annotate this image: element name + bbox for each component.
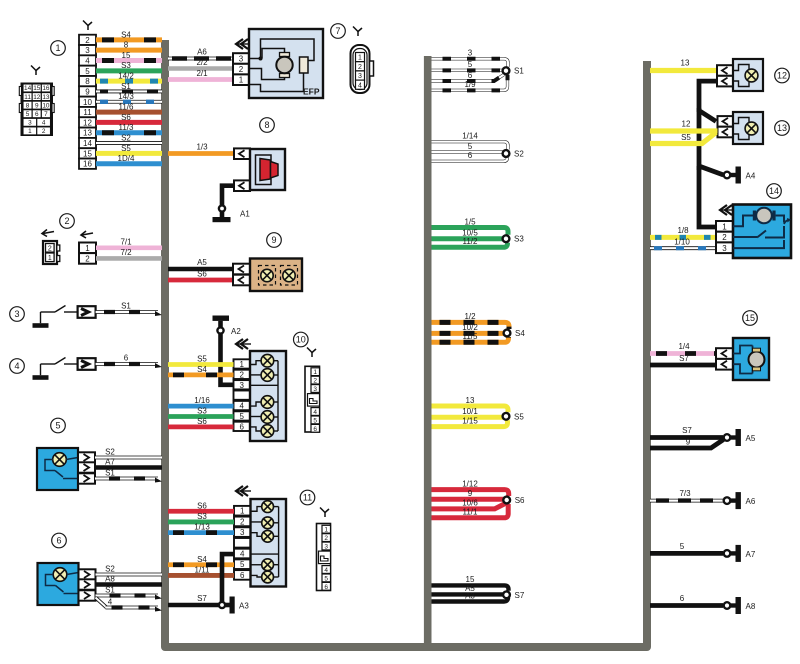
svg-text:14: 14 bbox=[83, 139, 92, 148]
svg-text:3: 3 bbox=[358, 73, 362, 80]
svg-text:A2: A2 bbox=[231, 327, 241, 336]
wire 1/5 (net S3) bbox=[432, 217, 509, 234]
svg-text:1/16: 1/16 bbox=[194, 396, 210, 405]
svg-text:11/6: 11/6 bbox=[119, 103, 135, 112]
wire 6 from switch 4 bbox=[96, 354, 162, 368]
wire A5 bbox=[168, 258, 233, 269]
wire 7/3 to ground A6 bbox=[650, 489, 723, 501]
wire 5 (net S2) bbox=[432, 142, 504, 152]
svg-text:2: 2 bbox=[722, 233, 727, 242]
svg-text:A6: A6 bbox=[746, 497, 756, 506]
wire S7 to ground A5 bbox=[650, 426, 723, 438]
svg-text:S7: S7 bbox=[679, 354, 689, 363]
label 2 for connector X2 bbox=[60, 214, 75, 229]
svg-text:1/8: 1/8 bbox=[677, 226, 689, 235]
wire S1 (unit 5) bbox=[95, 469, 162, 483]
svg-text:S1: S1 bbox=[514, 67, 524, 76]
motor unit 15 bbox=[716, 338, 769, 380]
wire 1/8 bbox=[650, 226, 716, 237]
wire 7/2 bbox=[96, 248, 162, 258]
wire S5 (X1 pin 15) bbox=[96, 144, 162, 154]
node A5 bbox=[724, 434, 731, 441]
svg-text:S2: S2 bbox=[514, 150, 524, 159]
svg-text:1: 1 bbox=[358, 55, 362, 62]
svg-text:1: 1 bbox=[28, 128, 32, 135]
svg-text:S1: S1 bbox=[105, 469, 115, 478]
svg-text:6: 6 bbox=[313, 426, 317, 433]
svg-text:8: 8 bbox=[124, 41, 129, 50]
label 5 for lamp unit bbox=[51, 418, 66, 433]
wire 10/5 (net S3) bbox=[432, 229, 504, 239]
wire 1/13 (cluster 11 pin 3) bbox=[168, 523, 234, 533]
wire A8 (unit 6) bbox=[96, 575, 163, 585]
wire fork to ground A4 bbox=[699, 166, 724, 227]
svg-text:10: 10 bbox=[296, 335, 306, 345]
svg-text:A3: A3 bbox=[465, 591, 475, 600]
wire 12 to lamp 13 bbox=[650, 120, 718, 132]
ground A4 bbox=[731, 167, 756, 184]
svg-text:S7: S7 bbox=[515, 591, 525, 600]
svg-text:2: 2 bbox=[240, 370, 245, 379]
wire 6 (net S1) bbox=[432, 71, 505, 81]
svg-text:S6: S6 bbox=[515, 496, 525, 505]
svg-text:9: 9 bbox=[35, 102, 39, 109]
svg-text:S1: S1 bbox=[121, 82, 131, 91]
wire S3 (cluster 10 pin 5) bbox=[168, 407, 234, 417]
svg-text:1: 1 bbox=[240, 507, 245, 516]
svg-text:7: 7 bbox=[335, 26, 340, 36]
svg-text:A8: A8 bbox=[105, 575, 115, 584]
wire from node A3 to cluster 11 pin 4 bbox=[222, 554, 234, 602]
svg-text:1/14: 1/14 bbox=[462, 132, 478, 141]
label 10 for lamp cluster bbox=[294, 332, 309, 347]
node A6 bbox=[724, 497, 731, 504]
svg-text:2: 2 bbox=[324, 535, 328, 542]
svg-text:S4: S4 bbox=[515, 329, 525, 338]
svg-text:1/13: 1/13 bbox=[194, 523, 210, 532]
svg-text:S3: S3 bbox=[121, 61, 131, 70]
wire 13 to lamp 12 bbox=[650, 59, 717, 71]
wire 1/12 (net S6) bbox=[432, 479, 509, 496]
label 7 for connector bbox=[331, 24, 346, 39]
wire 1D/4 (X1 pin 16) bbox=[96, 154, 162, 164]
label 11 for lamp cluster bbox=[300, 490, 315, 505]
svg-text:10: 10 bbox=[42, 102, 50, 109]
node S2 bbox=[503, 150, 510, 157]
svg-text:9: 9 bbox=[85, 87, 90, 96]
svg-text:11/5: 11/5 bbox=[463, 332, 479, 341]
svg-text:A1: A1 bbox=[240, 210, 250, 219]
motor unit 14 bbox=[716, 205, 791, 259]
svg-text:15: 15 bbox=[33, 85, 41, 92]
svg-text:S3: S3 bbox=[514, 235, 524, 244]
svg-text:6: 6 bbox=[240, 422, 245, 431]
svg-text:4: 4 bbox=[313, 409, 317, 416]
svg-text:8: 8 bbox=[26, 102, 30, 109]
svg-text:3: 3 bbox=[313, 386, 317, 393]
svg-text:S6: S6 bbox=[197, 270, 207, 279]
svg-text:2: 2 bbox=[313, 378, 317, 385]
svg-text:12: 12 bbox=[83, 118, 92, 127]
wire 13 (net S5) bbox=[432, 396, 509, 413]
svg-text:16: 16 bbox=[83, 160, 92, 169]
wire S2 (unit 5) bbox=[95, 448, 162, 458]
wire S3 (X1 pin 5) bbox=[96, 61, 162, 71]
svg-text:3: 3 bbox=[722, 244, 727, 253]
svg-text:1: 1 bbox=[313, 369, 317, 376]
svg-text:1: 1 bbox=[722, 222, 727, 231]
wire 6 (net S2) bbox=[432, 151, 508, 161]
svg-text:S5: S5 bbox=[197, 355, 207, 364]
label 4 for switch bbox=[10, 359, 25, 374]
ground A2 bbox=[213, 316, 230, 328]
svg-text:6: 6 bbox=[240, 571, 245, 580]
svg-text:7/3: 7/3 bbox=[679, 489, 691, 498]
wire 5 (net S1) bbox=[432, 60, 504, 70]
wire 7/1 bbox=[96, 238, 162, 248]
wire 8 (X1 pin 3) bbox=[96, 41, 162, 51]
svg-text:S4: S4 bbox=[121, 30, 131, 39]
svg-text:10/6: 10/6 bbox=[462, 499, 478, 508]
svg-text:3: 3 bbox=[240, 381, 245, 390]
svg-text:5: 5 bbox=[680, 542, 685, 551]
wire 1/4 bbox=[650, 342, 716, 354]
svg-text:13: 13 bbox=[83, 129, 92, 138]
svg-text:13: 13 bbox=[777, 123, 787, 133]
svg-text:10: 10 bbox=[83, 98, 92, 107]
svg-text:8: 8 bbox=[85, 77, 90, 86]
svg-text:1/2: 1/2 bbox=[464, 312, 476, 321]
node S5 bbox=[503, 413, 510, 420]
connector X1 pin ladder bbox=[79, 21, 96, 169]
label 15 for motor unit bbox=[743, 311, 758, 326]
wire S6 (X1 pin 12) bbox=[96, 113, 162, 123]
svg-text:S3: S3 bbox=[197, 407, 207, 416]
svg-text:11: 11 bbox=[303, 493, 312, 503]
wire 9 to ground A5 bbox=[650, 438, 724, 449]
node on ground wire bbox=[219, 205, 225, 211]
connector icon for cluster 10 bbox=[305, 348, 320, 433]
svg-text:6: 6 bbox=[124, 354, 129, 363]
svg-text:4: 4 bbox=[42, 120, 46, 127]
node A8 bbox=[724, 602, 731, 609]
wire S3 (cluster 11 pin 2) bbox=[168, 512, 234, 522]
switch 4 with ground bbox=[33, 358, 96, 380]
svg-text:1: 1 bbox=[239, 76, 244, 85]
svg-text:2: 2 bbox=[239, 65, 244, 74]
svg-text:1/3: 1/3 bbox=[196, 143, 208, 152]
node A2 bbox=[217, 327, 223, 333]
wire 10/2 (net S4) bbox=[432, 323, 505, 333]
svg-text:5: 5 bbox=[85, 67, 90, 76]
svg-text:S7: S7 bbox=[682, 426, 692, 435]
svg-text:10/2: 10/2 bbox=[462, 323, 478, 332]
svg-text:6: 6 bbox=[468, 71, 473, 80]
switch 3 with ground bbox=[33, 306, 96, 328]
wire S1 (unit 6) bbox=[96, 586, 163, 600]
svg-text:4: 4 bbox=[358, 82, 362, 89]
wire 2/2 bbox=[168, 58, 233, 69]
svg-text:10/1: 10/1 bbox=[462, 407, 478, 416]
svg-text:1/11: 1/11 bbox=[195, 565, 211, 574]
wire 6 to ground A8 bbox=[650, 594, 723, 606]
svg-text:3: 3 bbox=[14, 309, 19, 319]
lamp-switch unit 5 bbox=[37, 448, 95, 490]
svg-text:4: 4 bbox=[108, 598, 113, 607]
wire 1/3 bbox=[168, 143, 234, 154]
svg-text:S5: S5 bbox=[514, 412, 524, 421]
svg-text:2/2: 2/2 bbox=[196, 58, 208, 67]
svg-text:5: 5 bbox=[313, 417, 317, 424]
svg-text:EFP: EFP bbox=[303, 87, 320, 97]
svg-text:2/1: 2/1 bbox=[196, 69, 208, 78]
svg-text:15: 15 bbox=[466, 575, 475, 584]
wire 1/14 (net S2) bbox=[432, 132, 509, 150]
wire S1 (X1 pin 9) bbox=[96, 82, 162, 92]
svg-text:2: 2 bbox=[48, 246, 52, 253]
svg-text:3: 3 bbox=[239, 55, 244, 64]
label 12 for lamp unit bbox=[775, 68, 790, 83]
wire S6 bbox=[168, 270, 233, 281]
wire 14/2 (X1 pin 8) bbox=[96, 72, 162, 82]
svg-text:2: 2 bbox=[240, 517, 245, 526]
svg-text:5: 5 bbox=[26, 111, 30, 118]
svg-text:1/4: 1/4 bbox=[678, 342, 690, 351]
svg-text:6: 6 bbox=[35, 111, 39, 118]
svg-text:3: 3 bbox=[324, 544, 328, 551]
wire 15 (net S7) bbox=[432, 575, 509, 591]
svg-text:16: 16 bbox=[42, 85, 50, 92]
svg-text:12: 12 bbox=[33, 94, 41, 101]
svg-text:1: 1 bbox=[55, 43, 60, 53]
EFP fuel pump unit bbox=[233, 29, 323, 98]
wire S2 (unit 6) bbox=[96, 565, 163, 575]
node S7 bbox=[503, 591, 510, 598]
svg-text:S2: S2 bbox=[121, 133, 131, 142]
svg-text:11: 11 bbox=[24, 94, 31, 101]
label 14 for motor unit bbox=[767, 184, 782, 199]
horn unit 8 bbox=[234, 148, 285, 191]
ground A8 bbox=[731, 597, 756, 614]
svg-text:14/2: 14/2 bbox=[118, 72, 134, 81]
wire S4 (X1 pin 2) bbox=[96, 30, 162, 40]
ground A1 bbox=[213, 210, 251, 223]
svg-text:6: 6 bbox=[468, 151, 473, 160]
wire 4 (unit 6) bbox=[96, 598, 163, 612]
svg-text:7/1: 7/1 bbox=[120, 238, 132, 247]
ground A5 bbox=[731, 429, 756, 446]
label 8 for horn unit bbox=[260, 118, 275, 133]
svg-text:7: 7 bbox=[44, 111, 48, 118]
wire S7 to motor 15 bbox=[650, 354, 716, 365]
wire S4 (cluster 10 pin 2) bbox=[168, 365, 234, 375]
wire 9 (net S6) bbox=[432, 489, 504, 499]
wire 1/9 (net S1) bbox=[432, 75, 508, 91]
svg-text:1/9: 1/9 bbox=[464, 80, 476, 89]
wire S5 (cluster 10 pin 1) bbox=[168, 355, 234, 365]
svg-text:A8: A8 bbox=[746, 602, 756, 611]
svg-text:1: 1 bbox=[48, 255, 52, 262]
svg-text:S3: S3 bbox=[197, 512, 207, 521]
wire S7 to node A3 bbox=[168, 594, 219, 605]
svg-text:1/15: 1/15 bbox=[462, 416, 478, 425]
svg-text:S7: S7 bbox=[197, 594, 207, 603]
svg-text:3: 3 bbox=[85, 46, 90, 55]
svg-text:5: 5 bbox=[55, 421, 60, 431]
svg-text:5: 5 bbox=[324, 575, 328, 582]
svg-text:A6: A6 bbox=[197, 48, 207, 57]
svg-text:12: 12 bbox=[777, 71, 787, 81]
wire from 12 to 13 and trunk bbox=[699, 81, 717, 170]
wire S2 (X1 pin 14) bbox=[96, 133, 162, 143]
svg-text:S4: S4 bbox=[197, 555, 207, 564]
svg-text:15: 15 bbox=[745, 313, 755, 323]
svg-text:9: 9 bbox=[271, 235, 276, 245]
svg-text:S6: S6 bbox=[197, 417, 207, 426]
svg-text:S5: S5 bbox=[121, 144, 131, 153]
svg-text:1/5: 1/5 bbox=[464, 217, 476, 226]
svg-text:A4: A4 bbox=[746, 172, 756, 181]
wire 10/1 (net S5) bbox=[432, 407, 504, 417]
svg-text:15: 15 bbox=[122, 51, 131, 60]
svg-text:5: 5 bbox=[468, 60, 473, 69]
svg-text:S6: S6 bbox=[197, 501, 207, 510]
node S1 bbox=[503, 67, 510, 74]
wire S4 (cluster 11 pin 5) bbox=[168, 555, 234, 565]
wire S1 from switch 3 bbox=[96, 302, 162, 316]
connector icon for cluster 11 bbox=[317, 508, 331, 591]
svg-text:13: 13 bbox=[466, 396, 475, 405]
wire 3 (net S1) bbox=[432, 49, 509, 67]
connector X1 16-pin face view bbox=[19, 66, 54, 136]
wire S6 (cluster 11 pin 1) bbox=[168, 501, 234, 511]
svg-text:S6: S6 bbox=[121, 113, 131, 122]
svg-text:14: 14 bbox=[769, 186, 779, 196]
svg-text:1: 1 bbox=[240, 360, 245, 369]
connector X7 4-pin face view bbox=[351, 27, 374, 94]
wire 14/3 (X1 pin 10) bbox=[96, 92, 162, 102]
label 6 for lamp unit bbox=[52, 533, 67, 548]
svg-text:4: 4 bbox=[14, 361, 19, 371]
svg-text:11/2: 11/2 bbox=[463, 237, 479, 246]
svg-text:12: 12 bbox=[682, 120, 691, 129]
wire 1/15 (net S5) bbox=[432, 416, 508, 426]
svg-text:2: 2 bbox=[85, 254, 90, 263]
node S6 bbox=[503, 497, 510, 504]
svg-text:1/12: 1/12 bbox=[462, 479, 478, 488]
svg-text:1/10: 1/10 bbox=[674, 238, 690, 247]
wire A5 (net S7) bbox=[432, 584, 504, 594]
svg-text:4: 4 bbox=[324, 567, 328, 574]
svg-text:4: 4 bbox=[240, 402, 245, 411]
svg-text:A3: A3 bbox=[239, 602, 249, 611]
svg-text:S1: S1 bbox=[105, 586, 115, 595]
wire 1/2 (net S4) bbox=[432, 312, 510, 329]
svg-text:3: 3 bbox=[240, 528, 245, 537]
wire S5 to lamp 13 bbox=[650, 133, 716, 144]
svg-text:8: 8 bbox=[264, 120, 269, 130]
wire 11/3 (X1 pin 13) bbox=[96, 123, 162, 133]
node A4 bbox=[724, 172, 731, 179]
wire harness bus bars bbox=[165, 40, 647, 647]
svg-text:A7: A7 bbox=[105, 458, 115, 467]
svg-text:6: 6 bbox=[324, 584, 328, 591]
ground A3 bbox=[225, 597, 249, 614]
svg-text:3: 3 bbox=[468, 49, 473, 58]
svg-text:4: 4 bbox=[85, 57, 90, 66]
svg-text:2: 2 bbox=[64, 216, 69, 226]
svg-text:S2: S2 bbox=[105, 565, 115, 574]
wire A6 bbox=[168, 48, 233, 59]
svg-text:A7: A7 bbox=[746, 550, 756, 559]
ground A7 bbox=[731, 545, 756, 562]
svg-text:11/1: 11/1 bbox=[463, 508, 479, 517]
wire 11/5 (net S4) bbox=[432, 332, 509, 342]
label 13 for lamp unit bbox=[775, 121, 790, 136]
label 9 for lamp pair unit bbox=[267, 233, 282, 248]
svg-text:1D/4: 1D/4 bbox=[118, 154, 135, 163]
svg-text:S5: S5 bbox=[681, 133, 691, 142]
svg-text:11/3: 11/3 bbox=[119, 123, 135, 132]
svg-text:14: 14 bbox=[24, 85, 32, 92]
svg-text:7/2: 7/2 bbox=[120, 248, 132, 257]
lamp pair unit 9 bbox=[233, 259, 302, 292]
node S4 bbox=[504, 330, 511, 337]
wire A7 (unit 5) bbox=[95, 458, 162, 468]
svg-text:3: 3 bbox=[28, 120, 32, 127]
label 1 for connector X1 bbox=[51, 41, 66, 56]
svg-text:11: 11 bbox=[83, 108, 92, 117]
wire to ground A1 bbox=[222, 186, 234, 205]
lamp-switch unit 6 bbox=[38, 563, 96, 605]
wire 1/10 bbox=[650, 238, 716, 249]
node A3 bbox=[219, 602, 225, 608]
svg-text:6: 6 bbox=[680, 594, 685, 603]
svg-text:5: 5 bbox=[240, 560, 245, 569]
connector X2 pin ladder bbox=[79, 231, 96, 264]
wire 11/1 (net S6) bbox=[432, 504, 509, 518]
wire 5 to ground A7 bbox=[650, 542, 723, 553]
wire 2/1 bbox=[168, 69, 233, 80]
svg-text:13: 13 bbox=[681, 59, 690, 68]
svg-text:1: 1 bbox=[85, 244, 90, 253]
wire S6 (cluster 10 pin 6) bbox=[168, 417, 234, 427]
svg-text:S4: S4 bbox=[197, 365, 207, 374]
wire 11/6 (X1 pin 11) bbox=[96, 103, 162, 113]
wire A3 (net S7) bbox=[432, 591, 509, 601]
svg-text:A5: A5 bbox=[197, 258, 207, 267]
svg-text:5: 5 bbox=[468, 142, 473, 151]
wire from A2 to unit 10 pin 3 bbox=[221, 327, 242, 385]
svg-text:15: 15 bbox=[83, 149, 92, 158]
label 3 for switch bbox=[10, 307, 25, 322]
wire 1/11 (cluster 11 pin 6) bbox=[168, 565, 234, 575]
wire 1/16 (cluster 10 pin 4) bbox=[168, 396, 234, 406]
svg-text:1: 1 bbox=[324, 527, 328, 534]
svg-text:4: 4 bbox=[240, 550, 245, 559]
lamp cluster 10 bbox=[234, 339, 287, 441]
wire 10/6 (net S6) bbox=[432, 499, 506, 509]
lamp unit 13 bbox=[718, 112, 764, 144]
svg-text:2: 2 bbox=[358, 64, 362, 71]
connector X2 2-pin face view bbox=[42, 230, 60, 265]
svg-text:14/3: 14/3 bbox=[118, 92, 134, 101]
svg-text:6: 6 bbox=[56, 536, 61, 546]
svg-text:5: 5 bbox=[240, 412, 245, 421]
wire 11/2 (net S3) bbox=[432, 237, 508, 247]
svg-text:2: 2 bbox=[85, 36, 90, 45]
svg-text:13: 13 bbox=[42, 94, 50, 101]
